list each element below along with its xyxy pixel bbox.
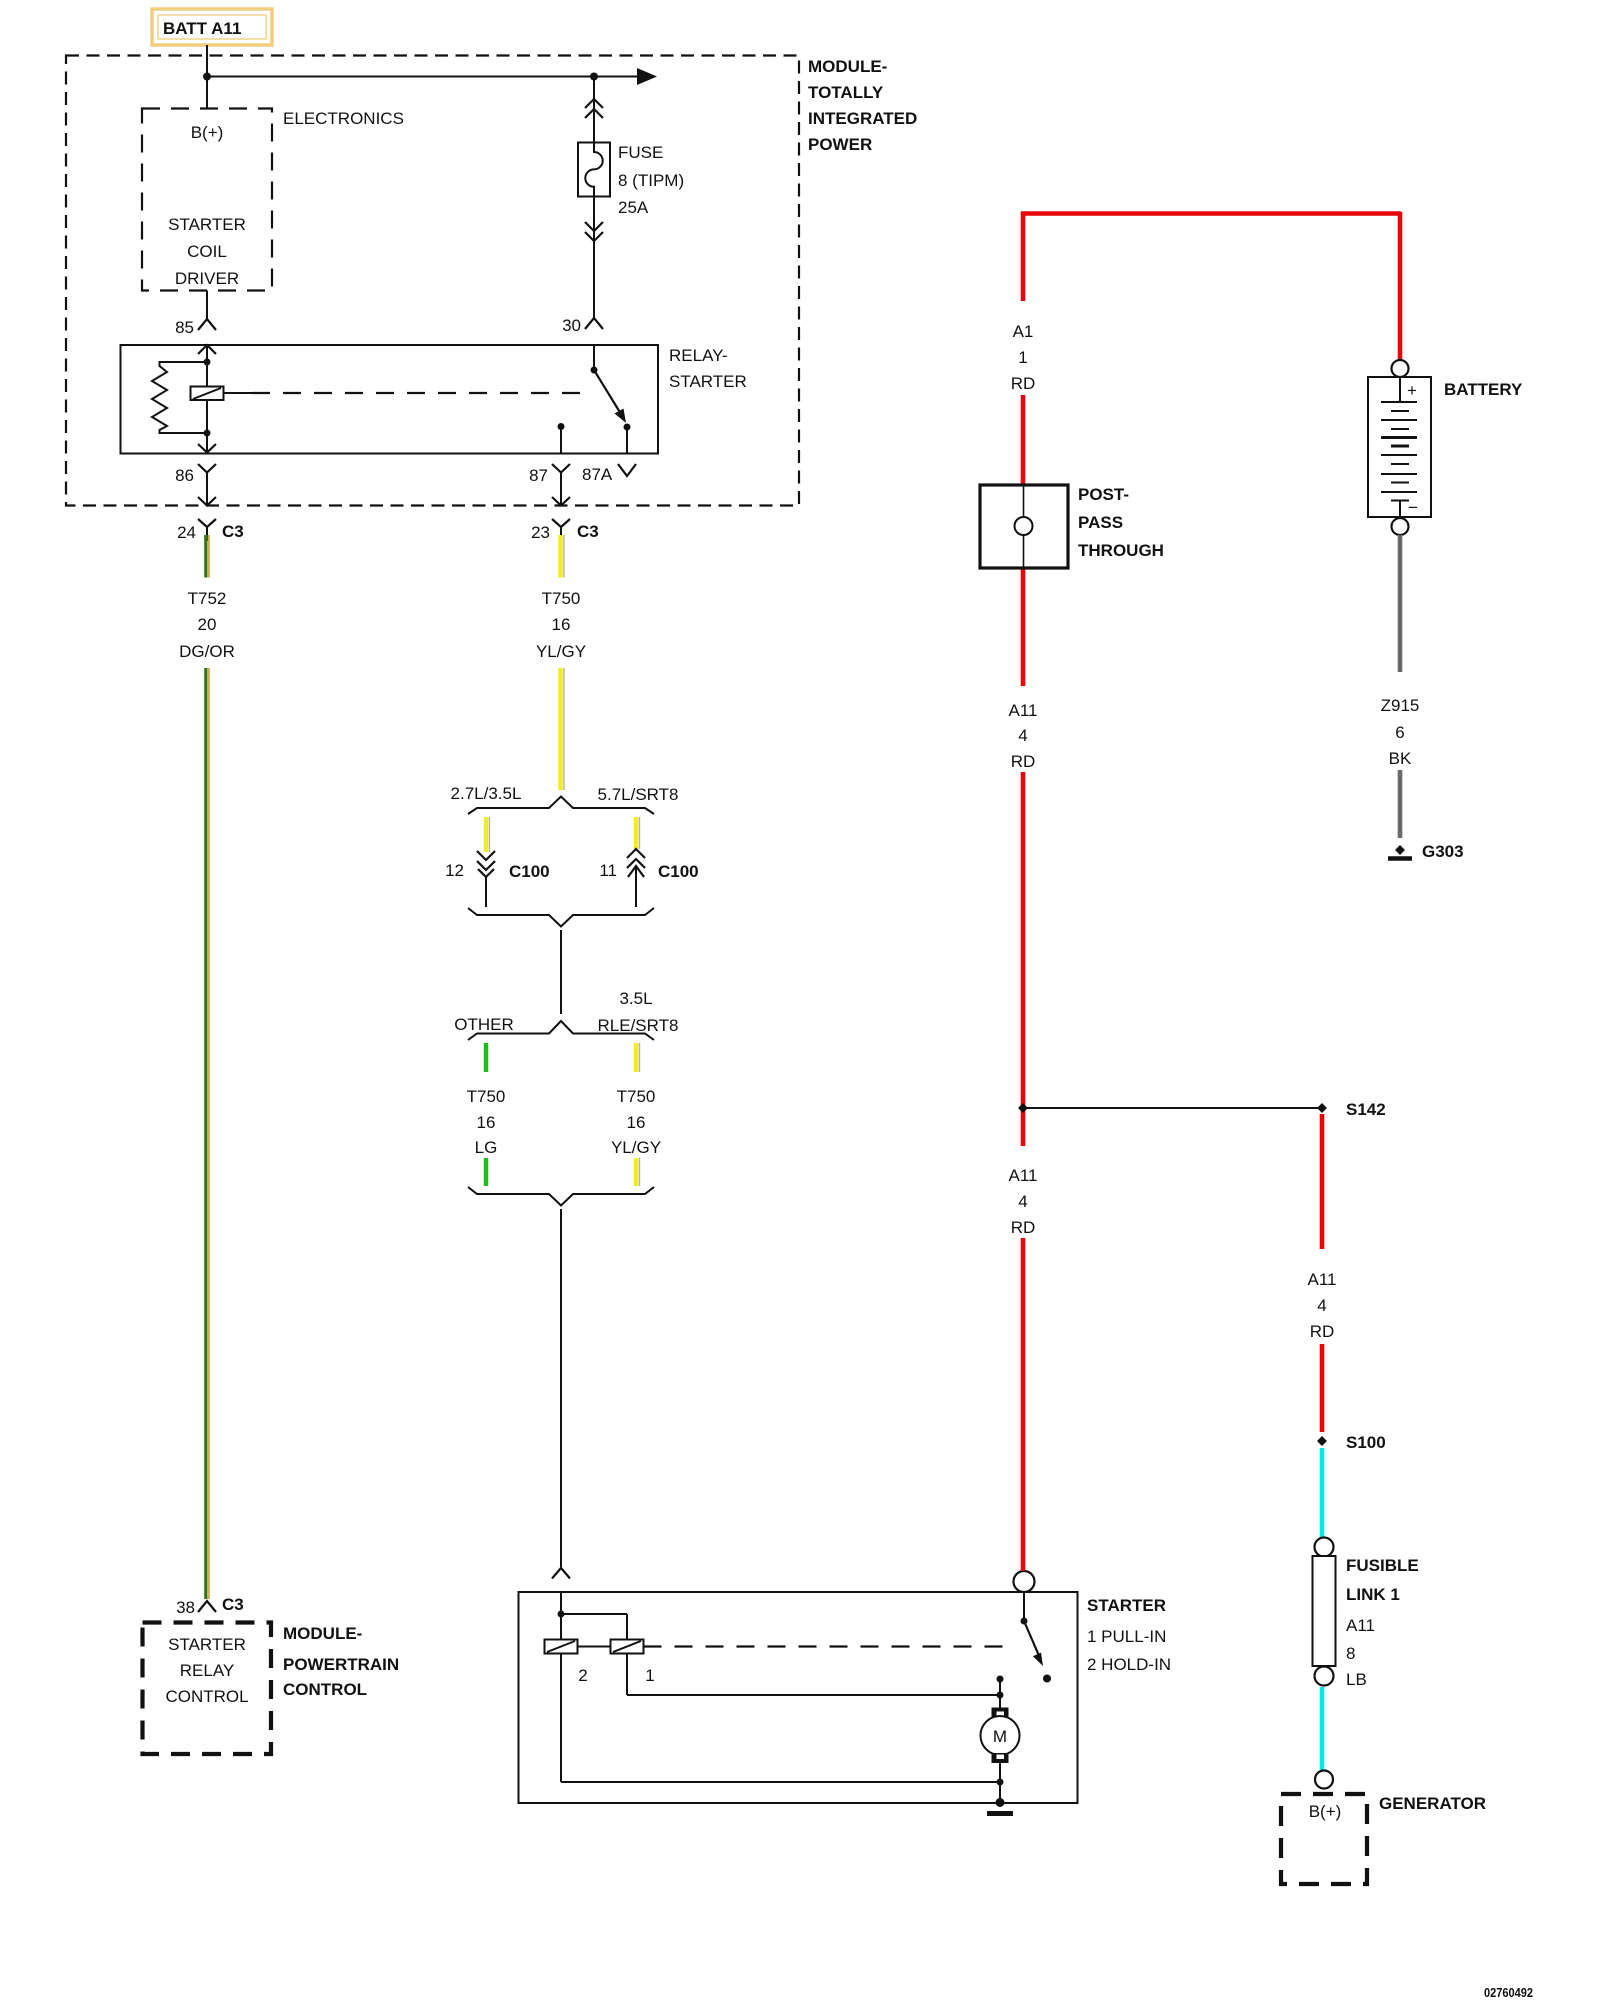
svg-text:LB: LB xyxy=(1346,1670,1367,1689)
svg-text:STARTER: STARTER xyxy=(168,1635,246,1654)
svg-text:RLE/SRT8: RLE/SRT8 xyxy=(598,1016,679,1035)
svg-text:BATTERY: BATTERY xyxy=(1444,380,1523,399)
svg-text:A11: A11 xyxy=(1009,701,1038,720)
svg-text:STARTER: STARTER xyxy=(669,372,747,391)
svg-text:MODULE-: MODULE- xyxy=(283,1624,362,1643)
svg-text:8 (TIPM): 8 (TIPM) xyxy=(618,171,684,190)
svg-text:TOTALLY: TOTALLY xyxy=(808,83,884,102)
svg-text:85: 85 xyxy=(175,318,194,337)
svg-text:LG: LG xyxy=(475,1138,498,1157)
svg-text:RD: RD xyxy=(1310,1322,1335,1341)
svg-text:YL/GY: YL/GY xyxy=(536,642,586,661)
svg-text:T750: T750 xyxy=(467,1087,506,1106)
svg-text:2: 2 xyxy=(578,1666,587,1685)
svg-text:6: 6 xyxy=(1395,723,1404,742)
svg-text:COIL: COIL xyxy=(187,242,227,261)
svg-text:YL/GY: YL/GY xyxy=(611,1138,661,1157)
svg-text:1: 1 xyxy=(645,1666,654,1685)
svg-text:THROUGH: THROUGH xyxy=(1078,541,1164,560)
svg-text:T750: T750 xyxy=(617,1087,656,1106)
svg-text:C3: C3 xyxy=(222,1595,244,1614)
svg-text:LINK 1: LINK 1 xyxy=(1346,1585,1400,1604)
svg-text:T752: T752 xyxy=(188,589,227,608)
svg-text:12: 12 xyxy=(445,861,464,880)
svg-text:FUSIBLE: FUSIBLE xyxy=(1346,1556,1419,1575)
svg-text:38: 38 xyxy=(176,1598,195,1617)
svg-text:BK: BK xyxy=(1389,749,1412,768)
svg-text:DG/OR: DG/OR xyxy=(179,642,235,661)
svg-text:BATT A11: BATT A11 xyxy=(163,19,241,38)
svg-text:C100: C100 xyxy=(509,862,550,881)
svg-text:FUSE: FUSE xyxy=(618,143,663,162)
svg-text:DRIVER: DRIVER xyxy=(175,269,239,288)
svg-text:GENERATOR: GENERATOR xyxy=(1379,1794,1486,1813)
svg-text:2.7L/3.5L: 2.7L/3.5L xyxy=(451,784,522,803)
svg-text:4: 4 xyxy=(1317,1296,1326,1315)
svg-text:INTEGRATED: INTEGRATED xyxy=(808,109,917,128)
svg-text:30: 30 xyxy=(562,316,581,335)
svg-text:02760492: 02760492 xyxy=(1484,1986,1533,2000)
svg-text:T750: T750 xyxy=(542,589,581,608)
svg-text:+: + xyxy=(1407,381,1417,400)
svg-text:A1: A1 xyxy=(1013,322,1034,341)
svg-text:Z915: Z915 xyxy=(1381,696,1420,715)
svg-text:16: 16 xyxy=(477,1113,496,1132)
svg-text:OTHER: OTHER xyxy=(454,1015,514,1034)
svg-text:25A: 25A xyxy=(618,198,649,217)
svg-text:ELECTRONICS: ELECTRONICS xyxy=(283,109,404,128)
svg-text:S100: S100 xyxy=(1346,1433,1386,1452)
svg-text:CONTROL: CONTROL xyxy=(283,1680,367,1699)
svg-text:RD: RD xyxy=(1011,374,1036,393)
svg-text:RD: RD xyxy=(1011,752,1036,771)
svg-text:CONTROL: CONTROL xyxy=(165,1687,248,1706)
svg-text:B(+): B(+) xyxy=(1309,1802,1342,1821)
svg-text:RELAY-: RELAY- xyxy=(669,346,728,365)
svg-text:16: 16 xyxy=(552,615,571,634)
svg-text:8: 8 xyxy=(1346,1644,1355,1663)
svg-text:16: 16 xyxy=(627,1113,646,1132)
svg-text:MODULE-: MODULE- xyxy=(808,57,887,76)
svg-text:2 HOLD-IN: 2 HOLD-IN xyxy=(1087,1655,1171,1674)
svg-text:POST-: POST- xyxy=(1078,485,1129,504)
svg-text:A11: A11 xyxy=(1308,1270,1337,1289)
svg-text:1: 1 xyxy=(1018,348,1027,367)
svg-text:PASS: PASS xyxy=(1078,513,1123,532)
svg-text:RELAY: RELAY xyxy=(180,1661,235,1680)
svg-text:RD: RD xyxy=(1011,1218,1036,1237)
svg-text:5.7L/SRT8: 5.7L/SRT8 xyxy=(598,785,679,804)
svg-text:23: 23 xyxy=(531,523,550,542)
svg-text:11: 11 xyxy=(599,861,617,880)
svg-text:24: 24 xyxy=(177,523,196,542)
svg-text:4: 4 xyxy=(1018,726,1027,745)
svg-text:87A: 87A xyxy=(582,465,613,484)
svg-text:STARTER: STARTER xyxy=(1087,1596,1166,1615)
svg-text:G303: G303 xyxy=(1422,842,1464,861)
svg-text:−: − xyxy=(1408,498,1418,517)
svg-text:M: M xyxy=(993,1727,1007,1746)
svg-text:B(+): B(+) xyxy=(191,123,224,142)
svg-text:A11: A11 xyxy=(1009,1166,1038,1185)
svg-text:87: 87 xyxy=(529,466,548,485)
svg-text:S142: S142 xyxy=(1346,1100,1386,1119)
svg-text:3.5L: 3.5L xyxy=(619,989,652,1008)
svg-text:C3: C3 xyxy=(222,522,244,541)
svg-text:C100: C100 xyxy=(658,862,699,881)
svg-text:C3: C3 xyxy=(577,522,599,541)
svg-text:20: 20 xyxy=(198,615,217,634)
svg-text:4: 4 xyxy=(1018,1192,1027,1211)
svg-text:POWERTRAIN: POWERTRAIN xyxy=(283,1655,399,1674)
svg-text:A11: A11 xyxy=(1346,1616,1375,1635)
svg-text:86: 86 xyxy=(175,466,194,485)
svg-text:POWER: POWER xyxy=(808,135,872,154)
svg-text:STARTER: STARTER xyxy=(168,215,246,234)
svg-text:1 PULL-IN: 1 PULL-IN xyxy=(1087,1627,1166,1646)
